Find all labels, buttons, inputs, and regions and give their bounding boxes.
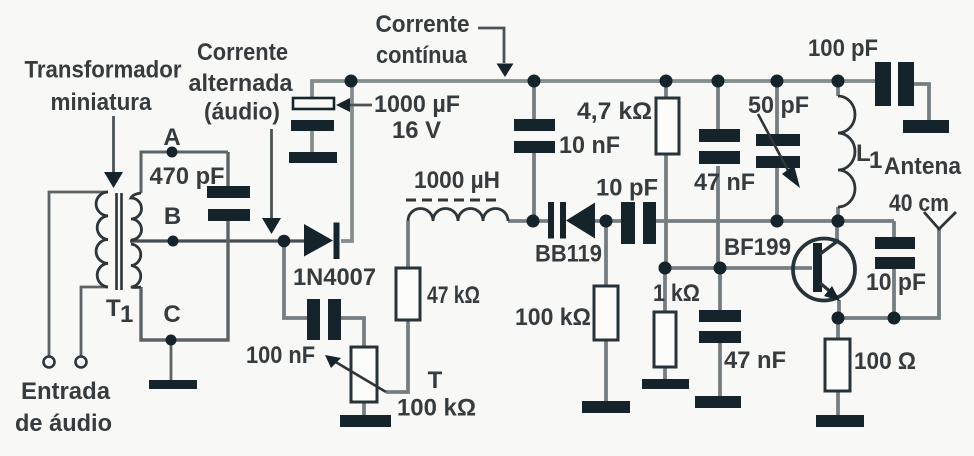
capacitor 10nF plates	[514, 119, 555, 131]
svg-text:470 pF: 470 pF	[150, 163, 225, 190]
svg-text:47 nF: 47 nF	[694, 169, 755, 196]
junction rail/50pF	[771, 75, 784, 88]
svg-text:100 pF: 100 pF	[808, 35, 878, 62]
svg-text:T: T	[106, 295, 121, 322]
svg-text:47 kΩ: 47 kΩ	[427, 282, 480, 309]
wire: primary bottom lead to right input	[81, 287, 108, 357]
svg-text:T: T	[428, 367, 443, 394]
node A	[167, 147, 178, 158]
arrow to 1000uF	[348, 104, 372, 107]
wire: 1k bottom to ground	[663, 367, 667, 379]
arrow to transformer	[112, 116, 115, 173]
wire: 100k bottom to ground	[604, 340, 608, 401]
wire: 100R bottom to ground	[836, 391, 840, 415]
transistor BF199 emitter lead	[820, 283, 838, 298]
svg-text:100 Ω: 100 Ω	[854, 348, 916, 375]
wire: 1000uF bottom to ground	[310, 131, 314, 152]
wire: 47nF bottom stem from base line	[718, 268, 722, 310]
junction choke/BB119	[527, 215, 540, 228]
svg-text:BB119: BB119	[535, 241, 602, 268]
input terminal left	[44, 357, 55, 368]
svg-text:1: 1	[869, 147, 882, 174]
svg-text:Corrente: Corrente	[197, 39, 288, 66]
capacitor 470pF plates	[207, 186, 250, 198]
svg-text:contínua: contínua	[376, 42, 468, 69]
ground under 100pF	[903, 120, 949, 133]
svg-text:miniatura: miniatura	[51, 89, 153, 116]
wire: BB119 anode to 10pF	[595, 219, 621, 223]
junction rail/47nF	[712, 75, 725, 88]
transistor BF199 base bar	[813, 243, 822, 292]
svg-text:(áudio): (áudio)	[204, 99, 280, 126]
transformer T1 secondary winding upper	[131, 193, 142, 240]
junction BB119/100k	[600, 215, 613, 228]
svg-text:47 nF: 47 nF	[724, 347, 786, 374]
wire: 100nF to trimmer top	[341, 318, 364, 347]
capacitor 50pF trimmer arrow	[758, 114, 790, 174]
wire: B line from transformer to diode anode	[130, 239, 304, 242]
junction tank/50pF	[771, 215, 784, 228]
wire: emitter to 100R	[836, 318, 840, 339]
capacitor 1000uF positive plate	[293, 98, 334, 109]
wire: 4.7k bottom down to base line	[664, 154, 668, 268]
wire: 47nF top bottom stem down to base line	[716, 166, 720, 268]
wire: trimmer bottom to ground	[362, 402, 366, 415]
wire: +V top rail	[312, 81, 878, 98]
capacitor 47nF lower plates	[699, 310, 741, 322]
wire: B node down to 100nF	[284, 241, 307, 318]
svg-text:100 kΩ: 100 kΩ	[397, 395, 476, 422]
wire: base line to transistor	[665, 266, 812, 270]
ground under 1k	[642, 379, 689, 389]
junction rail/4.7k	[660, 75, 673, 88]
svg-text:1N4007: 1N4007	[293, 264, 376, 291]
wire: emitter line to antenna riser	[839, 229, 939, 318]
wire: 10pF right bottom stem	[892, 269, 896, 318]
ground under C node	[149, 380, 197, 389]
svg-text:A: A	[163, 124, 180, 151]
wire: 47k bottom to wiper joint	[386, 320, 408, 392]
input terminal right	[76, 357, 87, 368]
capacitor 47nF upper plates	[699, 129, 740, 142]
wire: 1000uF top lead	[310, 81, 314, 98]
node B	[168, 236, 179, 247]
svg-text:1000 µF: 1000 µF	[374, 91, 460, 118]
capacitor 50pF trimmer plates	[756, 134, 800, 146]
svg-text:10 pF: 10 pF	[596, 175, 658, 202]
wire: 470pF top stem	[226, 152, 229, 186]
arrow corrente alternada	[270, 129, 273, 219]
junction rail/L1	[832, 75, 845, 88]
ground under 100k	[582, 401, 630, 413]
junction rail/diode feed	[345, 75, 358, 88]
inductor 1000uH dashed core	[406, 199, 498, 202]
capacitor 1000uF negative plate	[291, 120, 334, 131]
svg-text:100 nF: 100 nF	[246, 342, 315, 369]
svg-text:100 kΩ: 100 kΩ	[515, 304, 591, 331]
capacitor 100pF plates	[875, 62, 891, 106]
svg-text:40 cm: 40 cm	[889, 190, 949, 217]
wire: 10pF to tank line across verticals	[656, 219, 894, 223]
junction tank/L1/collector	[832, 215, 845, 228]
svg-text:10 nF: 10 nF	[559, 132, 620, 159]
junction rail/10nF	[528, 75, 541, 88]
wire: varicap node down to 100k resistor	[604, 221, 608, 286]
resistor 4.7k	[656, 98, 679, 154]
wire: primary top lead to left input	[49, 192, 108, 357]
junction base/47nF	[714, 262, 727, 275]
wire: 100pF right lead to ground	[914, 84, 929, 120]
wire: 50pF top stem	[775, 81, 779, 134]
junction B-line/diode	[278, 235, 291, 248]
capacitor 10pF coupling plates	[621, 202, 635, 244]
svg-text:Entrada: Entrada	[21, 378, 111, 405]
junction base/1k	[659, 262, 672, 275]
svg-text:1000 µH: 1000 µH	[414, 167, 500, 194]
svg-text:10 pF: 10 pF	[866, 269, 926, 296]
wire: L1 top stem	[836, 81, 840, 96]
svg-text:Transformador: Transformador	[25, 57, 182, 84]
svg-text:BF199: BF199	[724, 234, 791, 261]
node C	[166, 335, 177, 346]
transformer T1 secondary winding lower	[131, 244, 141, 288]
inductor 1000uH	[408, 209, 508, 222]
wire: C ground stem	[170, 340, 173, 380]
wire: 47nF bottom to ground	[718, 343, 722, 396]
capacitor 10pF emitter plates	[875, 237, 915, 249]
wire: collector riser	[835, 221, 839, 240]
svg-text:1 kΩ: 1 kΩ	[653, 280, 700, 307]
resistor 100R	[825, 339, 850, 391]
ground under 1000uF	[289, 152, 337, 163]
svg-text:50 pF: 50 pF	[748, 92, 809, 119]
wire: 1000uH right lead to BB119	[508, 219, 548, 223]
ground under 100R	[816, 415, 864, 427]
ground under 47nF	[695, 396, 741, 408]
resistor 1k	[654, 312, 676, 367]
wire: 1k stem from base line	[663, 268, 667, 312]
arrow corrente continua	[478, 28, 504, 63]
inductor L1	[838, 96, 855, 207]
resistor 47k	[396, 268, 420, 320]
transformer T1 primary winding	[96, 192, 108, 287]
wire: 10nF bottom to varicap node	[532, 153, 536, 221]
wire: A line	[141, 152, 228, 193]
svg-text:16 V: 16 V	[392, 117, 441, 144]
wire: 470pF bottom stem down to C line	[141, 221, 228, 340]
capacitor 100nF plates	[307, 299, 320, 340]
svg-text:Corrente: Corrente	[376, 11, 470, 38]
wire: 47k top to 1000uH left lead	[406, 221, 410, 268]
antenna symbol	[924, 212, 956, 229]
diode 1N4007	[304, 224, 333, 257]
resistor 100k bias	[594, 286, 618, 340]
wire: 10pF right top stem	[892, 221, 896, 237]
svg-text:alternada: alternada	[189, 70, 294, 97]
svg-text:C: C	[163, 301, 180, 328]
varicap BB119	[548, 202, 554, 239]
svg-text:B: B	[164, 203, 181, 230]
wire: L1 bottom stem to tank line	[836, 207, 840, 221]
ground under trimpot	[340, 415, 391, 427]
wire: 47nF top hanger	[716, 81, 720, 129]
wire: 50pF bottom stem to tank line	[775, 167, 779, 221]
transistor BF199 body	[793, 239, 855, 301]
junction emitter/100R	[832, 312, 845, 325]
svg-text:de áudio: de áudio	[15, 410, 112, 437]
trimpot T 100k wiper arrow	[334, 361, 386, 392]
wire: diode cathode to rail riser	[341, 81, 352, 241]
transistor BF199 collector lead	[820, 240, 839, 254]
wire: 4.7k top stem	[664, 81, 668, 98]
junction emitter/10pF	[888, 312, 901, 325]
transformer T1 core	[115, 193, 118, 290]
trimpot T 100k body	[351, 347, 377, 402]
svg-text:Antena: Antena	[884, 153, 962, 180]
svg-text:4,7 kΩ: 4,7 kΩ	[577, 98, 652, 125]
wire: 10nF hanger	[532, 81, 536, 119]
svg-text:1: 1	[120, 301, 133, 328]
